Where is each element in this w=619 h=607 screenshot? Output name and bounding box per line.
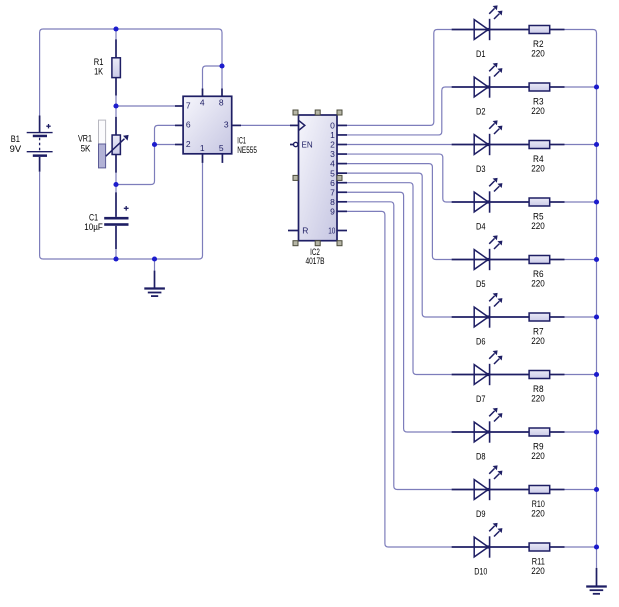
svg-text:220: 220 xyxy=(531,106,545,116)
svg-text:D3: D3 xyxy=(476,164,486,174)
svg-text:EN: EN xyxy=(302,140,313,150)
svg-text:R6: R6 xyxy=(533,269,544,279)
svg-text:R1: R1 xyxy=(94,57,104,67)
svg-text:R9: R9 xyxy=(533,442,544,452)
svg-text:D10: D10 xyxy=(474,567,487,577)
svg-text:D4: D4 xyxy=(476,222,486,232)
svg-text:4017B: 4017B xyxy=(306,256,325,266)
svg-text:5: 5 xyxy=(219,143,224,153)
svg-text:D6: D6 xyxy=(476,337,486,347)
svg-text:4: 4 xyxy=(200,98,205,108)
svg-text:5: 5 xyxy=(330,168,335,178)
svg-text:D7: D7 xyxy=(476,394,486,404)
svg-text:10µF: 10µF xyxy=(84,222,103,232)
svg-text:B1: B1 xyxy=(11,134,20,144)
svg-text:3: 3 xyxy=(224,120,229,130)
svg-text:220: 220 xyxy=(531,49,545,59)
svg-text:NE555: NE555 xyxy=(237,145,257,155)
svg-text:0: 0 xyxy=(330,121,335,131)
svg-text:220: 220 xyxy=(531,221,545,231)
svg-text:C1: C1 xyxy=(89,212,98,222)
svg-text:1K: 1K xyxy=(94,67,103,77)
svg-text:7: 7 xyxy=(186,100,191,110)
svg-text:D9: D9 xyxy=(476,509,486,519)
svg-text:7: 7 xyxy=(330,187,335,197)
svg-text:6: 6 xyxy=(330,178,335,188)
svg-text:3: 3 xyxy=(330,149,335,159)
svg-text:R11: R11 xyxy=(532,557,545,567)
svg-text:R8: R8 xyxy=(533,384,544,394)
svg-text:220: 220 xyxy=(531,566,545,576)
svg-text:1: 1 xyxy=(330,130,335,140)
svg-text:10: 10 xyxy=(328,226,335,236)
svg-text:2: 2 xyxy=(330,140,335,150)
svg-text:4: 4 xyxy=(330,159,335,169)
svg-text:8: 8 xyxy=(219,98,224,108)
svg-text:R5: R5 xyxy=(533,212,544,222)
svg-text:220: 220 xyxy=(531,336,545,346)
svg-text:R: R xyxy=(302,226,308,236)
svg-text:6: 6 xyxy=(186,120,191,130)
svg-text:R3: R3 xyxy=(533,97,544,107)
svg-text:D8: D8 xyxy=(476,452,486,462)
svg-text:IC1: IC1 xyxy=(237,135,246,145)
svg-text:VR1: VR1 xyxy=(78,134,92,144)
svg-text:220: 220 xyxy=(531,451,545,461)
svg-text:2: 2 xyxy=(186,139,191,149)
svg-text:R7: R7 xyxy=(533,327,544,337)
svg-text:220: 220 xyxy=(531,164,545,174)
svg-text:R2: R2 xyxy=(533,39,544,49)
svg-text:220: 220 xyxy=(531,509,545,519)
svg-text:220: 220 xyxy=(531,279,545,289)
svg-text:9V: 9V xyxy=(10,144,22,154)
svg-text:5K: 5K xyxy=(81,143,91,153)
svg-text:D2: D2 xyxy=(476,107,486,117)
svg-text:R4: R4 xyxy=(533,154,544,164)
svg-text:1: 1 xyxy=(200,143,205,153)
svg-text:D1: D1 xyxy=(476,49,486,59)
svg-text:D5: D5 xyxy=(476,279,486,289)
svg-text:R10: R10 xyxy=(532,499,545,509)
svg-text:9: 9 xyxy=(330,206,335,216)
svg-text:8: 8 xyxy=(330,197,335,207)
svg-text:220: 220 xyxy=(531,394,545,404)
